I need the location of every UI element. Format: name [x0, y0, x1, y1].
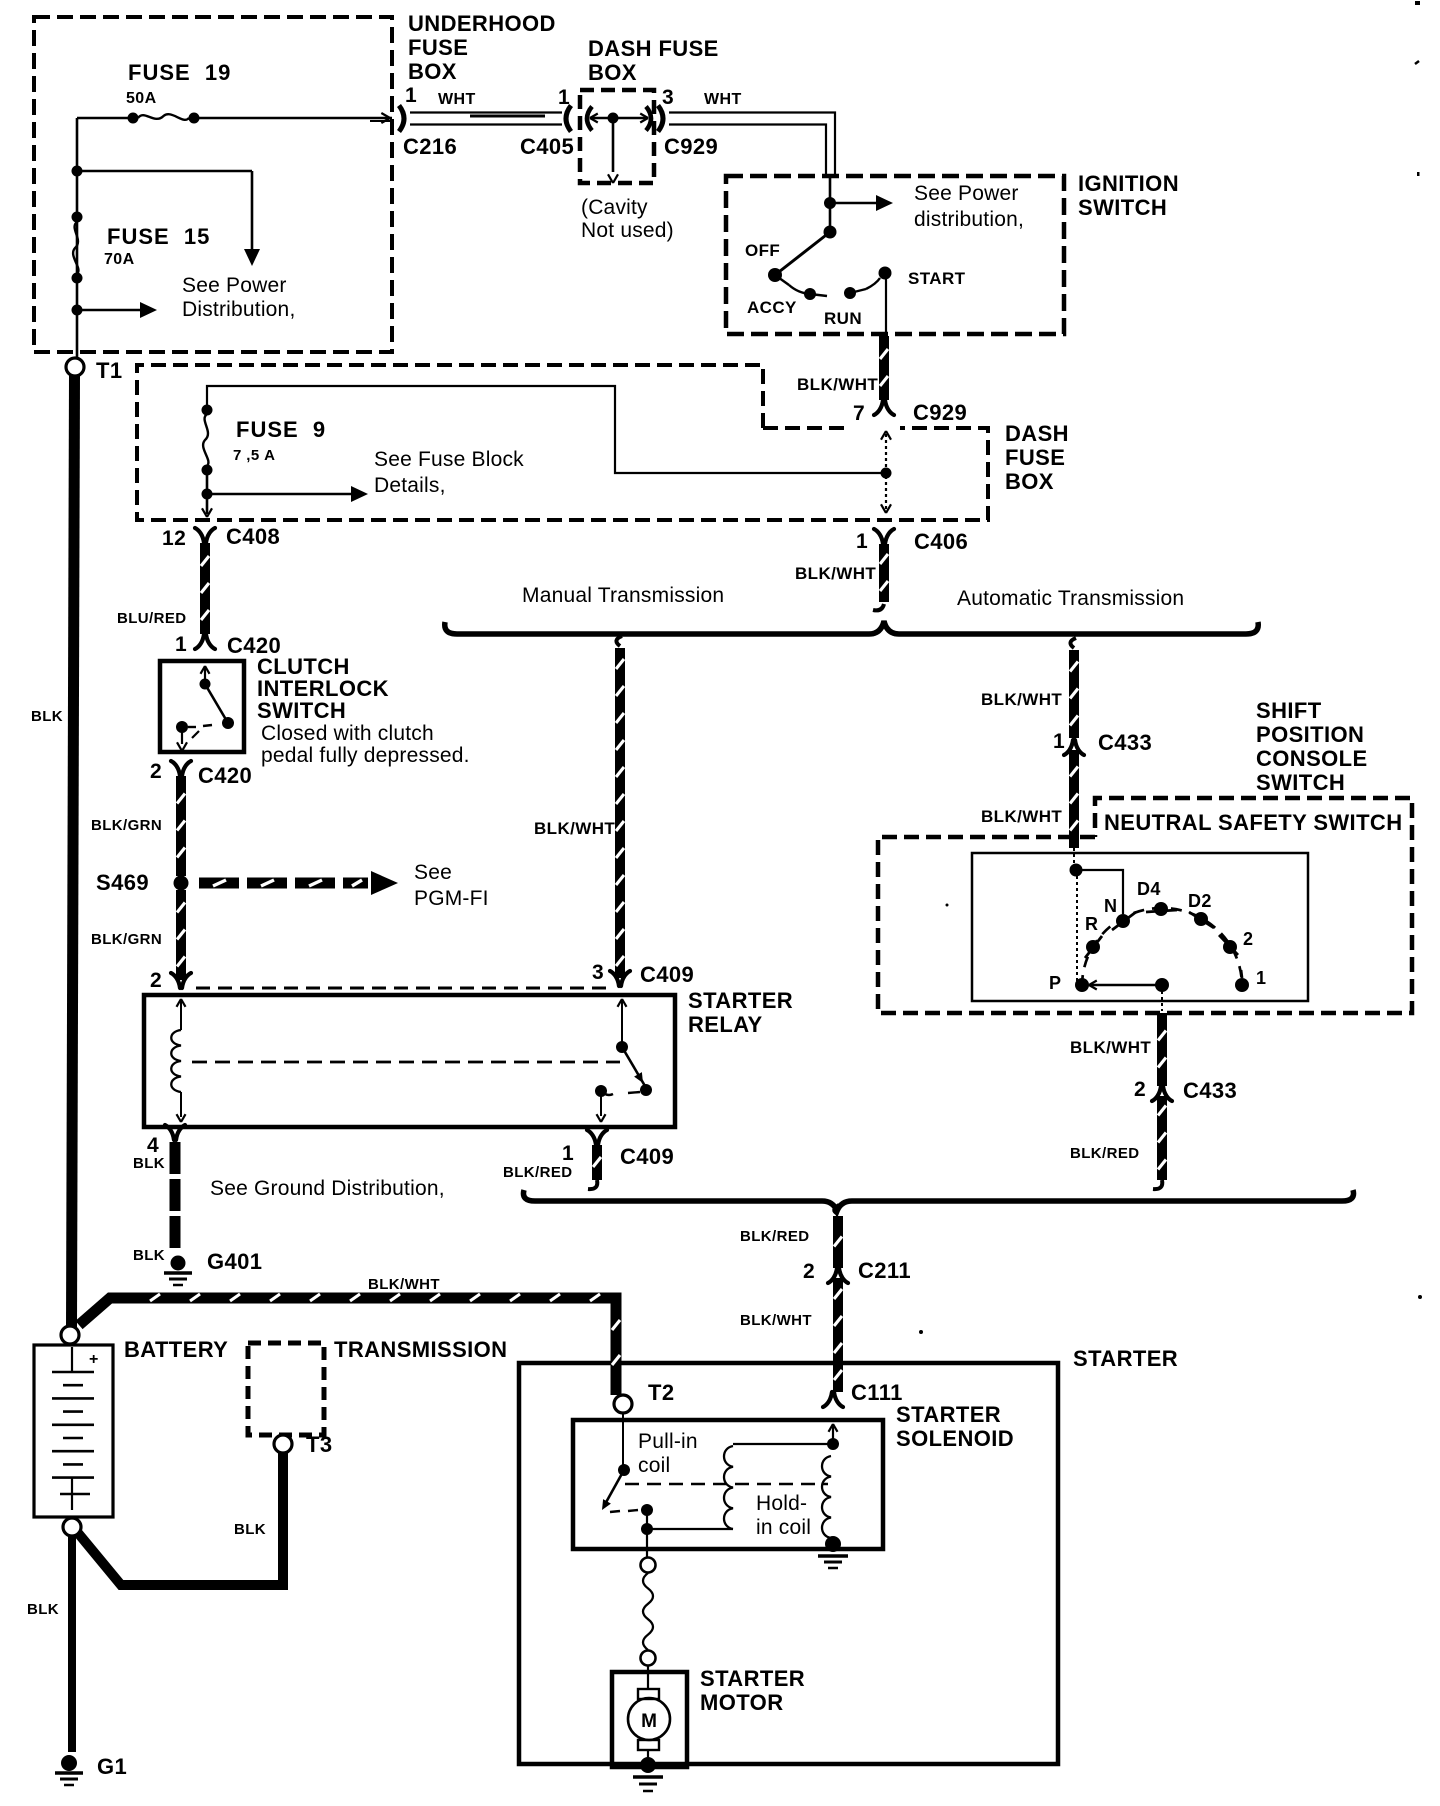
wire BLK T1 to battery [72, 375, 75, 1327]
note automatic transmission [957, 587, 1184, 610]
solenoid hold-in coil [756, 1438, 839, 1539]
svg-text:OFF: OFF [745, 241, 780, 260]
wire BLK/RED brace to C211 [740, 1205, 842, 1268]
svg-text:1: 1 [405, 84, 417, 107]
arrow see PGM-FI from S469 [199, 861, 489, 910]
dashed wire relay pin2 to pin3 [196, 987, 608, 990]
relay pin 3 connector C409 [592, 961, 694, 987]
wire BLK/WHT manual branch to relay pin 3 [534, 636, 624, 978]
svg-text:3: 3 [592, 961, 604, 984]
switch: neutral safety switch dashed box [878, 798, 1412, 1013]
ignition switch position OFF [745, 241, 780, 260]
svg-text:3: 3 [662, 86, 674, 109]
svg-text:BLK/WHT: BLK/WHT [981, 807, 1062, 826]
svg-text:BLK/WHT: BLK/WHT [795, 564, 876, 583]
svg-text:7 ,5 A: 7 ,5 A [233, 447, 275, 464]
svg-text:C433: C433 [1098, 730, 1152, 755]
junction box: dash fuse box main outline [137, 365, 1069, 520]
connector C211 pin 2 [803, 1258, 911, 1283]
svg-text:T3: T3 [306, 1432, 332, 1457]
svg-text:in coil: in coil [756, 1516, 811, 1539]
svg-text:See: See [414, 861, 452, 884]
svg-text:SWITCH: SWITCH [257, 698, 346, 723]
starter motor ground [633, 1757, 663, 1791]
svg-text:BLK/RED: BLK/RED [1070, 1145, 1139, 1162]
svg-text:See Ground Distribution,: See Ground Distribution, [210, 1177, 445, 1200]
svg-text:BOX: BOX [1005, 469, 1054, 494]
wire BLK/GRN C420 to S469 [91, 776, 185, 876]
svg-text:IGNITION: IGNITION [1078, 171, 1179, 196]
svg-text:C929: C929 [664, 134, 718, 159]
terminal T1 [66, 358, 122, 383]
svg-text:1: 1 [1053, 730, 1065, 753]
svg-text:2: 2 [803, 1260, 815, 1283]
svg-text:BLU/RED: BLU/RED [117, 610, 186, 627]
svg-text:C216: C216 [403, 134, 457, 159]
svg-text:FUSE: FUSE [408, 35, 468, 60]
svg-text:Details,: Details, [374, 474, 446, 497]
solenoid ground [818, 1536, 848, 1568]
wire BLK/WHT nss to C433 pin 2 [1070, 1013, 1166, 1086]
arrow see power distribution (ignition) [830, 182, 1024, 231]
connector C929 pin 7 [853, 400, 967, 425]
svg-text:Automatic Transmission: Automatic Transmission [957, 587, 1184, 610]
svg-text:C420: C420 [198, 763, 252, 788]
svg-text:C433: C433 [1183, 1078, 1237, 1103]
relay pin 4 connector [133, 1125, 185, 1172]
svg-text:D2: D2 [1188, 891, 1212, 911]
svg-text:FUSE 9: FUSE 9 [236, 417, 326, 442]
svg-text:2: 2 [1134, 1078, 1146, 1101]
svg-text:BLK/WHT: BLK/WHT [1070, 1038, 1151, 1057]
splice S469 [96, 870, 189, 895]
ignition switch feed node [824, 177, 836, 232]
svg-text:SHIFT: SHIFT [1256, 698, 1322, 723]
svg-text:BLK/GRN: BLK/GRN [91, 817, 162, 834]
speck marks [919, 1, 1422, 1334]
nss contact 2 [1219, 929, 1253, 955]
svg-text:1: 1 [558, 86, 570, 109]
svg-text:FUSE: FUSE [1005, 445, 1065, 470]
svg-text:2: 2 [1243, 929, 1253, 949]
svg-text:See Power: See Power [182, 274, 287, 297]
svg-text:70A: 70A [104, 251, 135, 268]
wire fuse 9 to C408 exit arrow [202, 494, 212, 517]
svg-text:S469: S469 [96, 870, 149, 895]
note manual transmission [522, 584, 724, 607]
note see ground distribution [210, 1177, 445, 1200]
svg-text:Not used): Not used) [581, 219, 674, 242]
cavity wire with unused terminal arrows [587, 107, 651, 184]
wire BLK/WHT battery to T2 [79, 1276, 620, 1395]
component: starter solenoid box [573, 1402, 1014, 1549]
starter motor M [628, 1689, 670, 1760]
connector C405 pin 1 [520, 86, 574, 159]
ignition switch contact arc ACCY RUN [747, 275, 866, 328]
fuse FUSE 9 7.5A [202, 405, 327, 476]
wire C111 into solenoid [829, 1424, 838, 1442]
svg-text:C929: C929 [913, 400, 967, 425]
brace joining manual and automatic into starter [523, 1190, 1353, 1211]
wire BLK battery to G1 [27, 1535, 72, 1752]
svg-text:BLK/WHT: BLK/WHT [368, 1276, 440, 1293]
nss contact N [1104, 896, 1136, 930]
note shift position console switch [1256, 698, 1368, 795]
svg-text:C405: C405 [520, 134, 574, 159]
svg-text:POSITION: POSITION [1256, 722, 1364, 747]
wire BLK/RED C433 to brace [1070, 1096, 1166, 1189]
svg-text:Distribution,: Distribution, [182, 298, 295, 321]
arrow see fuse block details [202, 448, 525, 502]
svg-text:T2: T2 [648, 1380, 674, 1405]
svg-text:NEUTRAL SAFETY SWITCH: NEUTRAL SAFETY SWITCH [1104, 810, 1402, 835]
junction box: dash fuse box (cavity) [580, 36, 719, 242]
switch: ignition switch box [726, 171, 1179, 334]
svg-text:G401: G401 [207, 1249, 262, 1274]
solenoid switch [602, 1413, 653, 1535]
connector C433 pin 2 [1134, 1078, 1237, 1103]
svg-text:FUSE 19: FUSE 19 [128, 60, 231, 85]
wire inside dash fuse box from fuse 9 to C406 node [207, 386, 892, 479]
svg-text:P: P [1049, 973, 1061, 993]
nss wiper to output [1089, 978, 1169, 1011]
connector C409 pin 1 [503, 1130, 674, 1189]
svg-text:C409: C409 [620, 1144, 674, 1169]
junction box: underhood fuse box [34, 11, 556, 352]
connector C408 pin 12 [162, 524, 280, 550]
starter relay dashed link [192, 1061, 620, 1064]
svg-text:+: + [89, 1351, 98, 1368]
connector C433 pin 1 [1053, 730, 1152, 755]
svg-text:N: N [1104, 896, 1117, 916]
fuse FUSE 15 70A [72, 212, 211, 284]
clutch switch contacts [176, 666, 234, 751]
ignition switch wiper blade [768, 226, 837, 283]
node T1 vertical feed wire [72, 118, 83, 360]
svg-text:D4: D4 [1137, 879, 1161, 899]
svg-text:DASH FUSE: DASH FUSE [588, 36, 719, 61]
component: battery [34, 1337, 228, 1517]
svg-text:BLK: BLK [234, 1521, 266, 1538]
starter relay coil [171, 999, 185, 1122]
svg-text:See Fuse Block: See Fuse Block [374, 448, 524, 471]
connector C111 [823, 1380, 903, 1407]
wire WHT C216 to C405 (double line) [370, 113, 562, 125]
wire solenoid to starter motor [641, 1529, 656, 1689]
wire BLK/WHT C211 to C111 [740, 1278, 842, 1392]
svg-text:SWITCH: SWITCH [1078, 195, 1167, 220]
wire BLK/WHT C406 pin 1 connector [856, 529, 968, 554]
battery negative terminal circle [63, 1518, 81, 1536]
svg-text:2: 2 [150, 969, 162, 992]
connector C420 pin 1 [175, 633, 281, 658]
component: starter motor box [612, 1666, 805, 1767]
terminal T2 [614, 1380, 674, 1413]
svg-text:STARTER: STARTER [700, 1666, 805, 1691]
svg-text:Pull-in: Pull-in [638, 1430, 698, 1453]
ground G1 [55, 1754, 127, 1785]
wire C929-7 to C406 with terminal arrows [881, 431, 891, 513]
svg-text:distribution,: distribution, [914, 208, 1024, 231]
wire branch to see-power-distribution arrow [77, 171, 260, 266]
svg-text:BLK/RED: BLK/RED [740, 1228, 809, 1245]
svg-text:4: 4 [147, 1134, 159, 1157]
svg-text:BOX: BOX [408, 59, 457, 84]
svg-text:BOX: BOX [588, 60, 637, 85]
wire START to box edge [885, 273, 887, 334]
svg-text:See Power: See Power [914, 182, 1019, 205]
solenoid pull-in coil [638, 1430, 833, 1529]
wire WHT C929 to ignition switch (double line) [669, 113, 835, 178]
svg-text:SWITCH: SWITCH [1256, 770, 1345, 795]
svg-text:1: 1 [562, 1142, 574, 1165]
svg-text:BLK/GRN: BLK/GRN [91, 931, 162, 948]
svg-text:C409: C409 [640, 962, 694, 987]
svg-text:1: 1 [856, 530, 868, 553]
svg-text:START: START [908, 269, 966, 288]
svg-text:BLK/WHT: BLK/WHT [981, 690, 1062, 709]
svg-text:BLK: BLK [133, 1247, 165, 1264]
nss contact P [1049, 973, 1089, 993]
wire BLK/WHT C433 to neutral safety switch [981, 750, 1078, 848]
svg-text:50A: 50A [126, 90, 157, 107]
wire BLK/WHT automatic branch to C433 [981, 638, 1078, 738]
svg-text:BLK/WHT: BLK/WHT [534, 819, 615, 838]
svg-text:Manual Transmission: Manual Transmission [522, 584, 724, 607]
note: see power distribution (underhood) [182, 274, 295, 321]
svg-text:1: 1 [175, 633, 187, 656]
relay: starter relay box [144, 988, 793, 1127]
connector C420 pin 2 [150, 760, 252, 788]
svg-text:T1: T1 [96, 358, 122, 383]
wire BLK/GRN S469 to relay pin 2 [91, 890, 185, 980]
svg-text:M: M [641, 1711, 657, 1732]
wire from fuse 19 to C216 [77, 113, 392, 123]
svg-text:RELAY: RELAY [688, 1012, 763, 1037]
svg-text:TRANSMISSION: TRANSMISSION [334, 1337, 507, 1362]
svg-text:RUN: RUN [824, 309, 862, 328]
svg-text:G1: G1 [97, 1754, 127, 1779]
svg-text:R: R [1085, 914, 1098, 934]
svg-text:DASH: DASH [1005, 421, 1069, 446]
svg-text:MOTOR: MOTOR [700, 1690, 783, 1715]
svg-text:WHT: WHT [704, 91, 742, 108]
svg-text:12: 12 [162, 527, 186, 550]
svg-text:2: 2 [150, 760, 162, 783]
svg-text:BLK/WHT: BLK/WHT [797, 375, 878, 394]
svg-text:SOLENOID: SOLENOID [896, 1426, 1014, 1451]
neutral safety switch arc [1082, 908, 1242, 986]
wire BLK/WHT ignition to C929 pin 7 [797, 336, 888, 400]
svg-text:CONSOLE: CONSOLE [1256, 746, 1368, 771]
label BLK left wire [31, 708, 63, 725]
svg-text:Closed with clutch: Closed with clutch [261, 722, 434, 745]
svg-text:FUSE 15: FUSE 15 [107, 224, 210, 249]
svg-text:1: 1 [1256, 968, 1266, 988]
nss contact D2 [1188, 891, 1214, 928]
svg-text:(Cavity: (Cavity [581, 196, 648, 219]
svg-text:BLK/WHT: BLK/WHT [740, 1312, 812, 1329]
svg-text:WHT: WHT [438, 91, 476, 108]
svg-text:C211: C211 [858, 1258, 911, 1283]
svg-text:pedal fully depressed.: pedal fully depressed. [261, 744, 470, 767]
nss contact R [1085, 914, 1102, 958]
svg-text:BATTERY: BATTERY [124, 1337, 228, 1362]
svg-text:BLK: BLK [31, 708, 63, 725]
svg-text:PGM-FI: PGM-FI [414, 887, 489, 910]
svg-text:7: 7 [853, 402, 865, 425]
nss contact 1 [1235, 968, 1266, 992]
svg-text:UNDERHOOD: UNDERHOOD [408, 11, 556, 36]
svg-text:coil: coil [638, 1454, 670, 1477]
switch: clutch interlock switch [160, 654, 470, 767]
junction box: transmission [248, 1337, 507, 1435]
ignition switch contact START [866, 267, 966, 290]
battery positive terminal circle [61, 1326, 79, 1344]
svg-text:STARTER: STARTER [688, 988, 793, 1013]
svg-text:C406: C406 [914, 529, 968, 554]
component: starter box [519, 1346, 1178, 1764]
svg-text:STARTER: STARTER [1073, 1346, 1178, 1371]
svg-text:C408: C408 [226, 524, 280, 549]
connector C216 pin 1 [399, 84, 476, 159]
svg-text:STARTER: STARTER [896, 1402, 1001, 1427]
terminal T3 [274, 1432, 332, 1457]
wire BLK relay to G401 [170, 1142, 181, 1252]
svg-text:BLK/RED: BLK/RED [503, 1164, 572, 1181]
brace splitting manual and automatic [445, 621, 1259, 634]
svg-text:BLK: BLK [27, 1601, 59, 1618]
connector C929 pin 3 [658, 86, 742, 159]
nss contact D4 [1137, 879, 1177, 916]
wire BLU/RED C408 to C420 [117, 543, 209, 634]
ground G401 [133, 1247, 262, 1285]
svg-text:C111: C111 [851, 1380, 903, 1405]
relay pin 2 connector [150, 969, 191, 992]
wire BLK T3 to battery negative [78, 1452, 283, 1585]
svg-text:ACCY: ACCY [747, 298, 797, 317]
fuse FUSE 19 50A [126, 60, 231, 124]
neutral safety switch inner box [972, 853, 1308, 1001]
solenoid dashed link [625, 1483, 828, 1486]
arrow to power distribution from fuse 15 [72, 302, 158, 318]
svg-text:Hold-: Hold- [756, 1492, 807, 1515]
neutral safety switch feed [1070, 848, 1124, 983]
wire BLK/WHT C406 to brace [795, 544, 888, 610]
starter relay switch [595, 999, 652, 1122]
svg-text:BLK: BLK [133, 1155, 165, 1172]
